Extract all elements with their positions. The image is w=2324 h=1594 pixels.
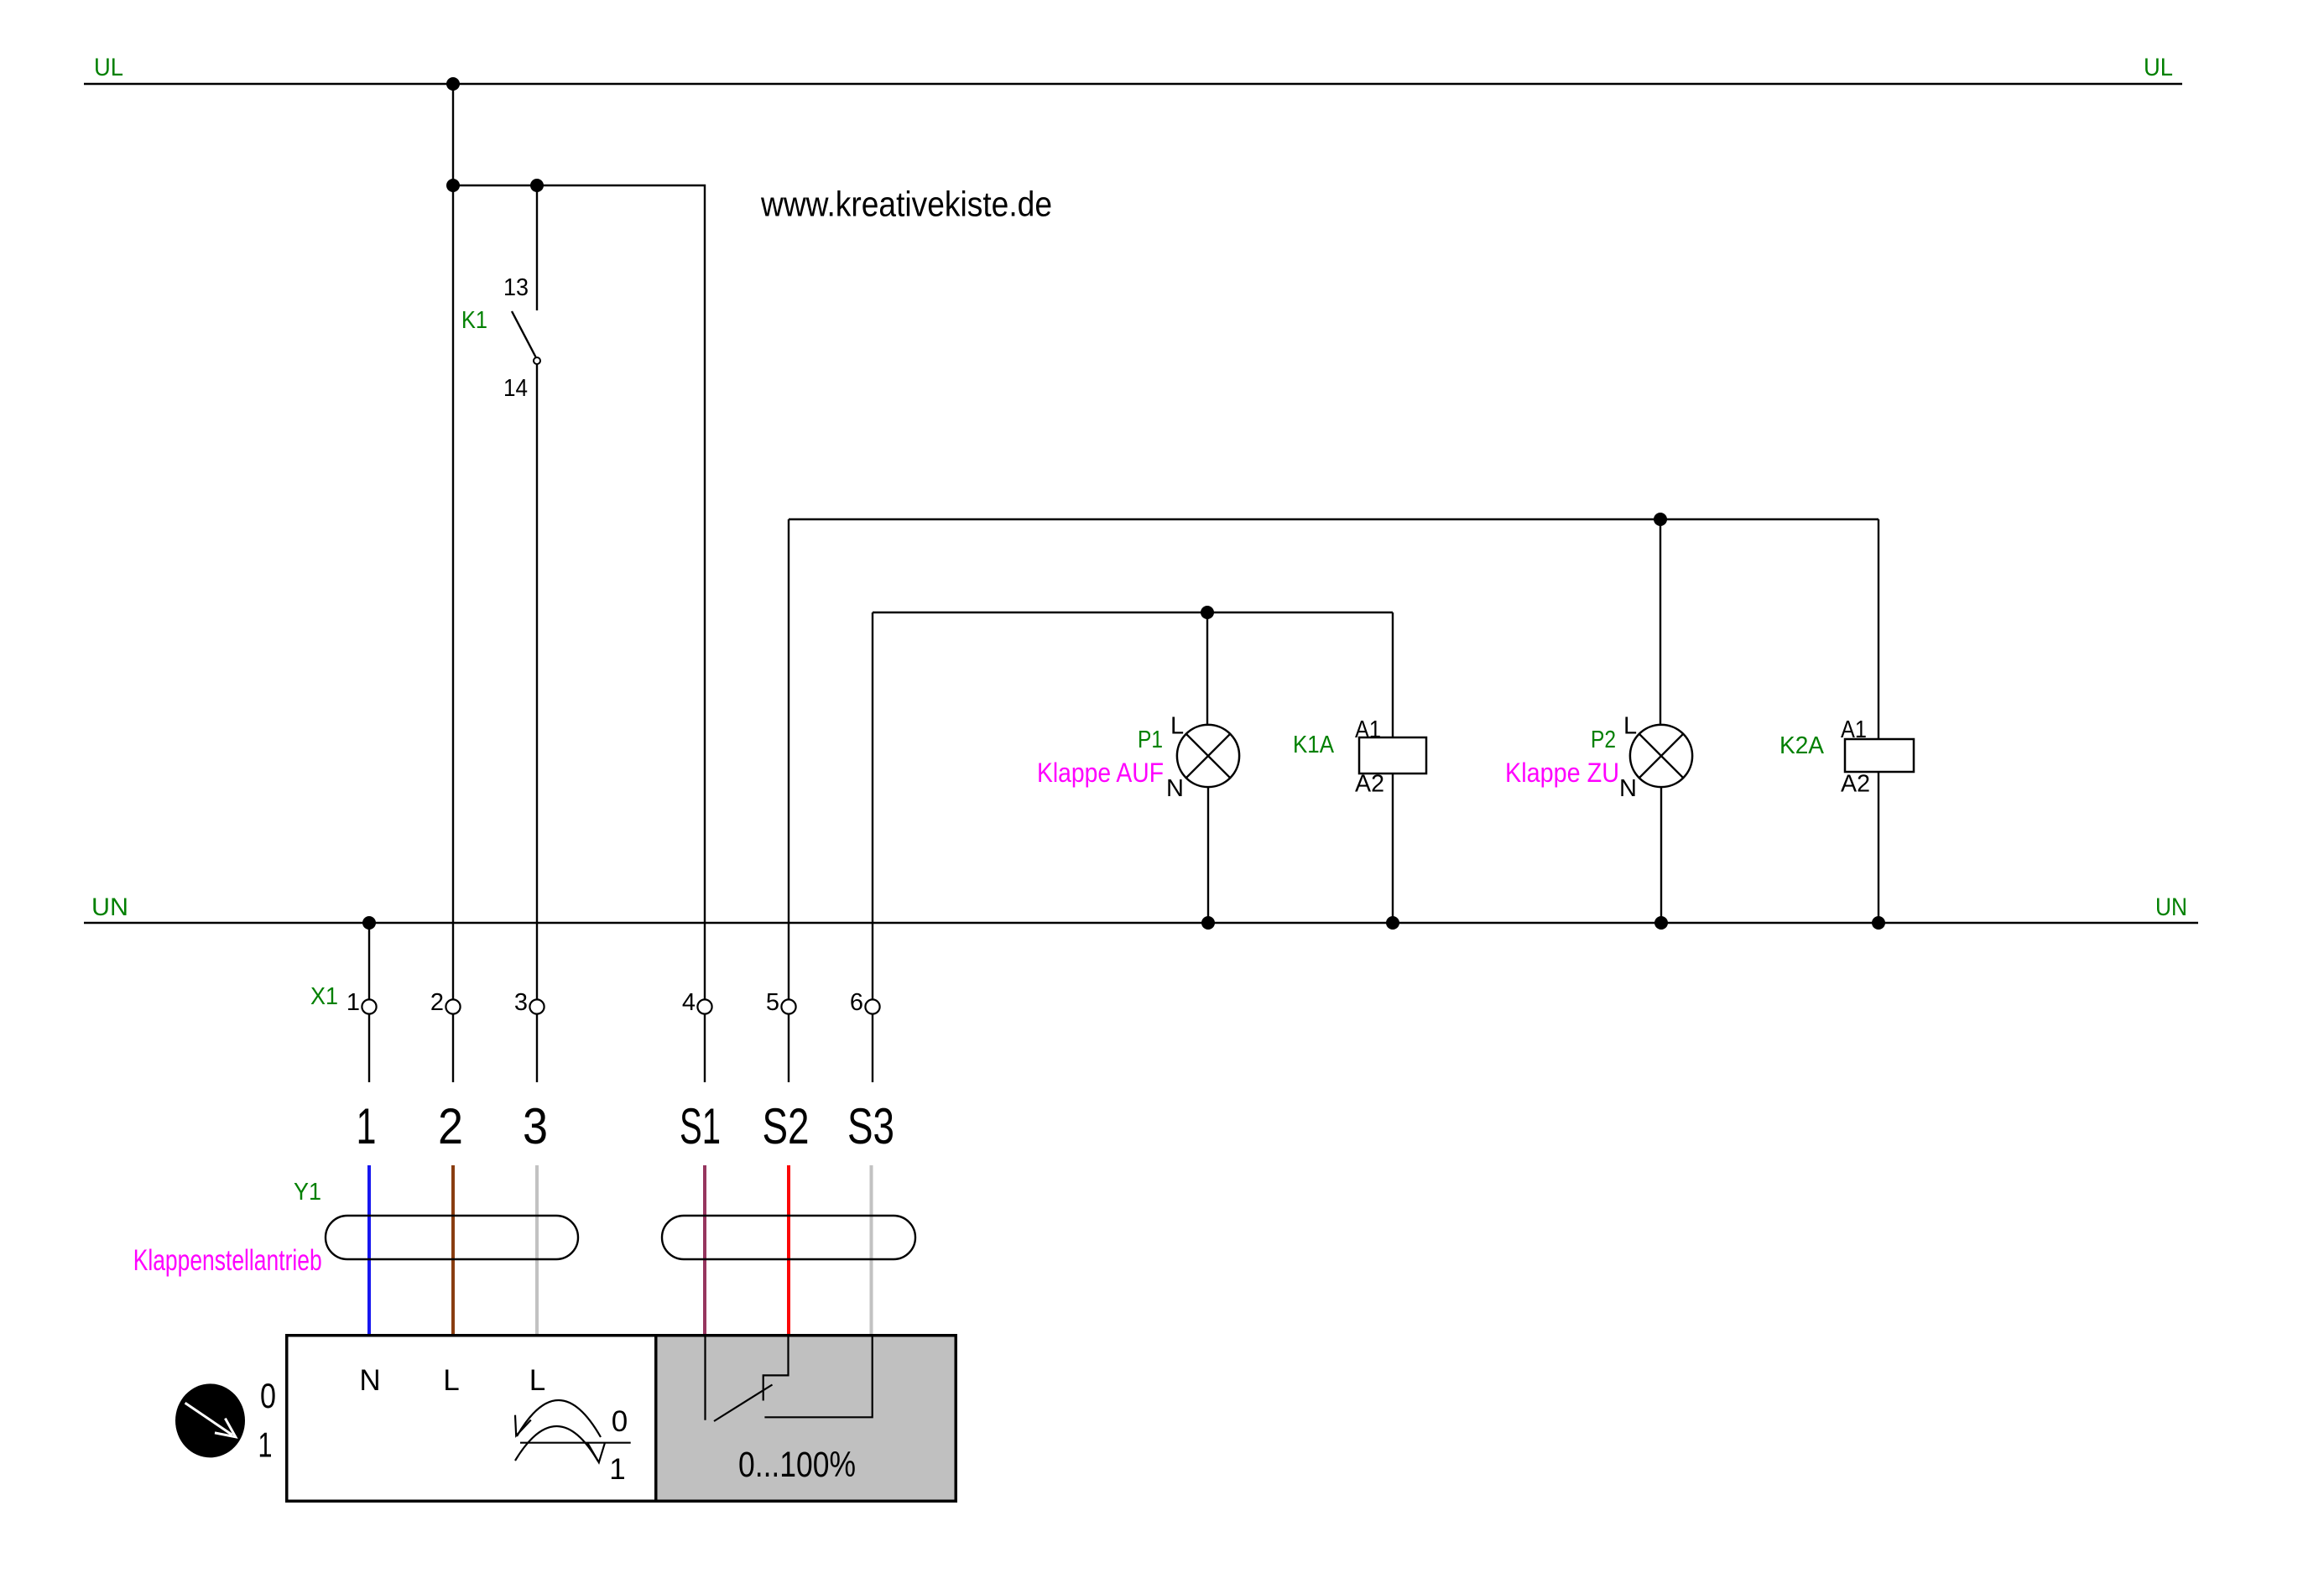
svg-text:4: 4 <box>682 989 696 1016</box>
wire: rail B junction down to lamp P1 pin L <box>1206 612 1208 725</box>
wire 2 (brown, L conductor) <box>451 1165 455 1334</box>
svg-text:L: L <box>1170 713 1184 740</box>
svg-text:Klappe AUF: Klappe AUF <box>1037 758 1164 788</box>
wire: lamp P2 pin N down to UN <box>1660 787 1662 923</box>
svg-text:1: 1 <box>357 1098 377 1154</box>
svg-text:1: 1 <box>609 1453 625 1486</box>
wire: S2 riser from rail A down to terminal X1:5 <box>788 519 789 999</box>
svg-text:3: 3 <box>523 1098 548 1154</box>
lamp P1 body <box>1177 725 1239 787</box>
wire: riser from UN junction to terminal X1:1 <box>368 923 370 999</box>
relay contact K1 (NO contact 13-14) <box>461 185 540 999</box>
svg-text:N: N <box>1619 775 1637 802</box>
terminal X1:4 <box>697 999 711 1013</box>
wire S3 (gray) <box>870 1165 873 1334</box>
svg-text:L: L <box>443 1364 459 1397</box>
svg-text:A2: A2 <box>1355 771 1384 798</box>
svg-text:K1A: K1A <box>1293 732 1335 758</box>
coil K2A body <box>1845 739 1914 772</box>
junction on UN at x=1440 <box>1201 916 1215 930</box>
wire: lamp P1 pin N down to UN <box>1207 787 1209 923</box>
svg-text:13: 13 <box>503 274 529 301</box>
wire: S2 contact step <box>763 1335 789 1401</box>
terminal X1:5 <box>781 999 795 1013</box>
junction at (640,221) <box>530 179 544 192</box>
wire: horizontal rail y=221 then riser down to terminal X1:4 <box>453 185 705 999</box>
junction on UN at x=1980 <box>1654 916 1668 930</box>
knob pointer arrow <box>185 1403 232 1435</box>
svg-text:L: L <box>1623 713 1637 740</box>
wire: lower stub from pin 14 down to terminal X1:3 <box>536 365 538 1000</box>
terminal X1:2 <box>446 999 460 1013</box>
wire: upper stub to contact pin 13 <box>536 185 538 310</box>
wire stub below terminal X1:5 <box>788 1014 789 1082</box>
cable sleeve (right, wires S1-S3) <box>662 1216 915 1259</box>
relay coil K1A <box>1293 612 1426 930</box>
junction at (1439,730) <box>1201 606 1214 619</box>
lamp P1 (Klappe AUF) <box>1037 612 1239 930</box>
svg-text:UN: UN <box>91 893 128 921</box>
wire stub below terminal X1:1 <box>368 1014 370 1082</box>
svg-text:2: 2 <box>430 989 444 1016</box>
feedback potentiometer switch <box>706 1335 873 1421</box>
contact hinge circle <box>534 357 540 364</box>
junction at (1979,619) <box>1654 513 1667 526</box>
cable sleeve Y1 (left, wires 1-3) <box>326 1216 578 1259</box>
lamp P2 (Klappe ZU) <box>1505 519 1692 930</box>
actuator Y1 body: outer box <box>287 1336 956 1502</box>
relay coil K2A <box>1779 519 1914 930</box>
axis line <box>520 1442 631 1444</box>
svg-text:UL: UL <box>94 54 123 81</box>
net UL bus wire <box>84 83 2182 86</box>
terminal X1:1 <box>362 999 376 1013</box>
wire stub below terminal X1:6 <box>872 1014 873 1082</box>
wire: rail A y=619 from S2 riser to K2A branch <box>789 518 1878 520</box>
svg-text:L: L <box>529 1364 545 1397</box>
svg-text:P1: P1 <box>1138 727 1163 753</box>
svg-text:UN: UN <box>2155 893 2187 921</box>
svg-text:S2: S2 <box>763 1098 810 1154</box>
svg-text:S1: S1 <box>680 1098 721 1154</box>
wire: rail A end down to coil K2A pin A1 <box>1878 519 1879 739</box>
lower rotation arc <box>515 1426 598 1461</box>
arrowhead upper arc (left) <box>515 1415 531 1436</box>
wiper blade <box>714 1385 773 1422</box>
svg-text:A2: A2 <box>1841 771 1870 798</box>
wire: riser from UL to terminal X1:2 <box>452 84 454 999</box>
wire S2 (red) <box>787 1165 790 1334</box>
arrowhead lower arc (right) <box>588 1443 605 1462</box>
svg-text:N: N <box>359 1364 380 1397</box>
svg-text:0: 0 <box>260 1376 276 1415</box>
svg-text:Klappenstellantrieb: Klappenstellantrieb <box>133 1244 322 1277</box>
svg-text:14: 14 <box>503 375 528 402</box>
svg-text:S3: S3 <box>847 1098 894 1154</box>
wire: rail B end down to coil K1A pin A1 <box>1392 612 1394 737</box>
svg-text:Klappe ZU: Klappe ZU <box>1505 758 1619 788</box>
svg-text:N: N <box>1166 775 1184 802</box>
svg-text:3: 3 <box>514 989 528 1016</box>
wire: S3 contact arm <box>764 1335 872 1417</box>
svg-text:6: 6 <box>850 989 863 1016</box>
wire stub below terminal X1:4 <box>704 1014 706 1082</box>
wire: coil K1A pin A2 down to UN <box>1392 774 1394 923</box>
svg-text:5: 5 <box>766 989 779 1016</box>
svg-text:0: 0 <box>612 1405 628 1438</box>
upper rotation arc <box>517 1400 601 1437</box>
svg-text:UL: UL <box>2144 54 2173 81</box>
wire: S1 pole into gray section <box>704 1335 706 1420</box>
terminal X1:3 <box>529 999 544 1013</box>
svg-text:K2A: K2A <box>1779 732 1825 759</box>
junction on UN at x=2239 <box>1872 916 1885 930</box>
wire stub below terminal X1:3 <box>536 1014 538 1082</box>
svg-text:1: 1 <box>258 1425 273 1465</box>
wire 1 (blue, N conductor) <box>367 1165 371 1334</box>
wire: coil K2A pin A2 down to UN <box>1878 772 1879 923</box>
wire S1 (violet) <box>703 1165 706 1334</box>
contact blade K1 <box>512 311 536 357</box>
svg-text:P2: P2 <box>1591 727 1616 753</box>
wire 3 (gray, L conductor) <box>535 1165 539 1334</box>
svg-text:Y1: Y1 <box>294 1179 321 1206</box>
net UN bus wire <box>84 922 2198 925</box>
svg-text:K1: K1 <box>461 307 487 334</box>
junction on UL at x=540 <box>446 77 460 91</box>
svg-text:A1: A1 <box>1355 716 1381 743</box>
svg-text:A1: A1 <box>1841 716 1867 743</box>
lamp P2 body <box>1630 725 1692 787</box>
svg-text:0...100%: 0...100% <box>738 1445 856 1485</box>
wire stub below terminal X1:2 <box>452 1014 454 1082</box>
svg-text:2: 2 <box>438 1098 463 1154</box>
svg-text:www.kreativekiste.de: www.kreativekiste.de <box>760 185 1052 224</box>
junction on UN at x=1660 <box>1386 916 1399 930</box>
junction at (540,221) <box>446 179 460 192</box>
wire: S3 riser from rail B down to terminal X1:6 <box>872 612 873 999</box>
svg-text:1: 1 <box>347 989 360 1016</box>
coil K1A body <box>1359 737 1426 774</box>
actuator Y1 body: gray feedback section <box>656 1336 956 1502</box>
control knob <box>175 1383 245 1457</box>
terminal strip X1 <box>310 983 880 1016</box>
wire: rail A junction down to lamp P2 pin L <box>1660 519 1661 725</box>
wire: rail B y=730 from S3 riser to K1A branch <box>873 612 1393 613</box>
junction on UN at x=440 <box>362 916 376 930</box>
svg-text:X1: X1 <box>310 983 338 1010</box>
terminal X1:6 <box>865 999 879 1013</box>
knob disc <box>175 1383 245 1457</box>
rotation-direction symbol <box>515 1400 631 1462</box>
